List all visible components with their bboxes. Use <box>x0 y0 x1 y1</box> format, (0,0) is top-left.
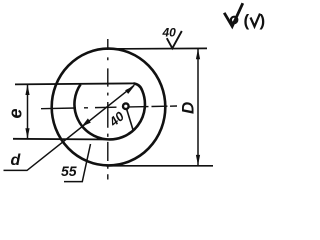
arrow 40-dim upper (tip at flat-top corner) <box>125 86 134 94</box>
arrow D bottom <box>196 155 200 166</box>
D bottom extension line (tangent to outer circle bottom) <box>106 165 213 167</box>
horizontal centerline <box>41 106 177 109</box>
dimension line D <box>197 49 199 166</box>
corner (check) symbol <box>244 11 266 30</box>
inner circle d (flat top with right fillet) <box>74 83 145 139</box>
roughness mark 40 on top line <box>167 31 182 48</box>
e bottom extension line (tangent to inner circle bottom) <box>13 138 113 141</box>
arrow e bottom <box>25 128 29 138</box>
D top extension line (tangent to outer circle top) <box>110 47 208 50</box>
arrow D top <box>196 49 200 60</box>
center point marker (small ring) <box>123 103 129 109</box>
svg-text:(: ( <box>244 11 250 30</box>
svg-text:): ) <box>260 11 266 30</box>
vertical centerline <box>107 39 109 180</box>
marker tail to inner circle <box>127 109 133 130</box>
arrow e top <box>25 85 29 95</box>
leader shelf 55 <box>64 144 91 182</box>
svg-text:e: e <box>6 108 26 118</box>
svg-text:40: 40 <box>162 26 177 40</box>
corner roughness symbol: bold check with ring <box>224 3 243 26</box>
svg-text:55: 55 <box>61 163 77 179</box>
dimension line e <box>27 84 29 138</box>
outer circle D <box>52 49 166 166</box>
svg-text:D: D <box>179 102 198 114</box>
arrow 40-dim lower (tip on inner circle lower-left) <box>82 118 91 126</box>
svg-text:d: d <box>11 152 22 169</box>
leader shelf d <box>4 85 135 170</box>
flat top edge / e top extension line <box>15 83 134 84</box>
